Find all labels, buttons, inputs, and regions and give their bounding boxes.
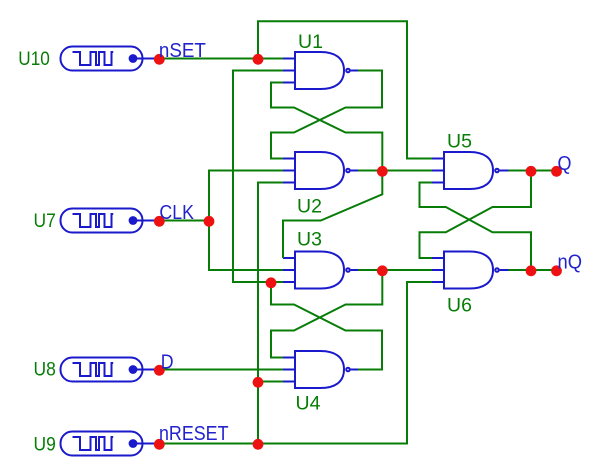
wire Q to U6 top input — [420, 171, 532, 259]
pulse generator U8 — [61, 358, 156, 382]
wire U2 output to U5 middle input — [358, 170, 432, 172]
wire D to U4 middle input — [159, 369, 283, 371]
wire U4 output to U1 middle input — [233, 71, 283, 283]
svg-text:nSET: nSET — [159, 40, 206, 62]
NAND gate U2 — [282, 152, 358, 189]
wire nRESET to U4 bottom input — [258, 381, 283, 383]
junction U2 output — [377, 166, 388, 177]
svg-text:U5: U5 — [447, 131, 472, 153]
wire U5 output to Q — [509, 170, 557, 172]
junction Q terminal — [551, 166, 562, 177]
junction U3 bottom input — [266, 277, 277, 288]
junction Q node — [526, 166, 537, 177]
svg-text:U8: U8 — [34, 359, 56, 381]
NAND gate U3 — [282, 252, 358, 289]
svg-text:nQ: nQ — [558, 252, 583, 274]
junction nRESET pin — [154, 439, 165, 450]
svg-text:U7: U7 — [34, 210, 56, 232]
wire CLK to U2 middle input — [209, 171, 283, 221]
wire U3 output to U6 middle input — [358, 269, 432, 271]
svg-text:U1: U1 — [298, 31, 323, 53]
pulse generator U10 — [61, 47, 156, 71]
wire U2 output to U1 bottom input — [271, 83, 382, 171]
NAND gate U6 — [431, 252, 509, 289]
junction D pin — [154, 365, 165, 376]
junction nSET node — [253, 54, 264, 65]
svg-text:U3: U3 — [297, 229, 322, 251]
NAND gate U4 — [282, 351, 358, 388]
NAND gate U1 — [282, 52, 358, 89]
svg-text:U6: U6 — [447, 295, 472, 317]
wire nRESET to U6 bottom input — [258, 282, 432, 444]
wire U2 output to U3 top input — [283, 171, 382, 259]
wire U1 output to U2 top input — [271, 71, 382, 159]
NAND gate U5 — [431, 152, 509, 189]
junction nQ terminal — [551, 265, 562, 276]
svg-text:CLK: CLK — [159, 202, 194, 224]
svg-text:U9: U9 — [34, 434, 56, 456]
wire nSET rail to U5 top input — [258, 21, 432, 158]
wire U4 output to U3 bottom input — [271, 282, 382, 370]
svg-text:Q: Q — [558, 153, 572, 175]
svg-text:D: D — [161, 351, 174, 373]
pulse generator U9 — [61, 432, 156, 456]
junction nSET pin — [154, 54, 165, 65]
junction nQ node — [526, 265, 537, 276]
junction nRESET to U4 — [253, 377, 264, 388]
svg-text:nRESET: nRESET — [159, 423, 229, 445]
svg-text:U4: U4 — [296, 393, 321, 415]
junction CLK pin — [154, 216, 165, 227]
wire CLK from generator — [159, 220, 209, 222]
wire nRESET rail to U2 bottom input — [258, 183, 283, 444]
wire nQ to U5 bottom input — [420, 183, 532, 271]
wire U3 output to U4 top input — [271, 270, 382, 358]
wire nSET to U1 top input — [159, 58, 283, 60]
wire nRESET from generator — [159, 443, 258, 445]
junction CLK node — [204, 216, 215, 227]
wire U6 output to nQ — [509, 269, 557, 271]
junction U3 output — [377, 265, 388, 276]
svg-text:U2: U2 — [297, 196, 322, 218]
wire CLK to U3 middle input — [209, 221, 283, 271]
svg-text:U10: U10 — [18, 48, 50, 70]
junction nRESET corner — [253, 439, 264, 450]
pulse generator U7 — [61, 209, 156, 233]
